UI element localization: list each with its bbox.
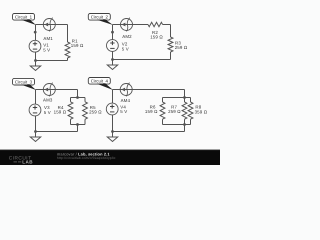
label R8 value 359 Ω	[195, 109, 208, 114]
ammeter AM1	[43, 18, 55, 32]
resistor R3	[168, 37, 173, 52]
wire left vertical upper segment (circuit 4)	[112, 90, 114, 104]
wire R7 top lead	[184, 98, 186, 103]
junction dot bottom-left (circuit 2)	[111, 58, 114, 61]
resistor R2	[148, 22, 163, 26]
svg-text:5 V: 5 V	[43, 48, 50, 53]
flag Circuit_3	[13, 78, 37, 90]
voltage source V4	[106, 103, 118, 115]
label R2	[152, 30, 158, 35]
wire ammeter AM1 to top-right corner (circuit 1)	[55, 24, 67, 26]
label V4 value 5 V	[120, 109, 127, 114]
wire bottom (circuit 3)	[36, 131, 78, 133]
svg-text:AM1: AM1	[43, 36, 53, 41]
svg-text:Circuit_3: Circuit_3	[15, 80, 33, 85]
ammeter AM2	[121, 18, 133, 32]
wire right vertical lower lead (circuit 1)	[67, 58, 69, 61]
svg-text:159 Ω: 159 Ω	[71, 43, 84, 48]
wire R6 top lead	[162, 98, 164, 103]
wire bottom (circuit 2)	[113, 59, 171, 61]
svg-text:AM4: AM4	[121, 98, 131, 103]
label R6	[150, 105, 156, 110]
junction dot bottom rail (circuit 3)	[76, 123, 79, 126]
label R6 value 159 Ω	[145, 109, 158, 114]
wire left vertical lower segment (circuit 4)	[112, 115, 114, 132]
junction dot bottom rail (circuit 4)	[183, 123, 186, 126]
wire feed from bottom rail down (circuit 3)	[77, 125, 79, 132]
svg-text:AM3: AM3	[43, 97, 53, 102]
label AM1	[43, 36, 53, 41]
wire feed down to parallel top rail (circuit 3)	[77, 90, 79, 98]
junction dot top rail (circuit 3)	[76, 96, 79, 99]
junction dot top rail (circuit 4)	[183, 96, 186, 99]
wire left vertical lower segment (circuit 2)	[112, 51, 114, 59]
wire feed down to parallel top rail (circuit 4)	[184, 90, 186, 98]
resistor R7	[182, 102, 187, 119]
wire ammeter AM2 to resistor R2 (circuit 2)	[133, 24, 149, 26]
label V3	[44, 105, 50, 110]
wire R5 bottom lead	[84, 119, 86, 124]
wire top-left corner to ammeter AM1 (circuit 1)	[36, 24, 44, 26]
label AM4	[121, 98, 131, 103]
resistor R6	[160, 102, 165, 119]
svg-text:V2: V2	[122, 41, 128, 46]
label R5	[90, 105, 96, 110]
wire left vertical upper segment (circuit 3)	[35, 90, 37, 105]
label R4	[58, 105, 64, 110]
label V2	[122, 41, 128, 46]
ammeter AM4	[120, 83, 132, 97]
wire top rail (circuit 3)	[71, 97, 86, 99]
label R7 value 259 Ω	[168, 109, 181, 114]
label V4	[120, 105, 126, 110]
svg-text:http://circuitlab.com/c/59aqw6: http://circuitlab.com/c/59aqw6t3yp8c	[57, 156, 116, 160]
wire R4 top lead	[70, 98, 72, 102]
label R1	[72, 38, 78, 43]
wire left vertical upper segment (circuit 1)	[35, 25, 37, 41]
label R5 value 259 Ω	[89, 110, 102, 115]
voltage source V2	[107, 40, 119, 52]
node dot on left wire (circuit 1)	[34, 31, 37, 34]
label R1 value 159 Ω	[71, 43, 84, 48]
svg-text:259 Ω: 259 Ω	[175, 45, 188, 50]
svg-text:AM2: AM2	[122, 34, 132, 39]
wire R4 bottom lead	[70, 119, 72, 124]
svg-text:Circuit_4: Circuit_4	[91, 79, 109, 84]
label AM2	[122, 34, 132, 39]
svg-text:259 Ω: 259 Ω	[89, 110, 102, 115]
resistor R1	[65, 42, 70, 58]
wire feed from bottom rail down (circuit 4)	[184, 125, 186, 132]
wire bottom (circuit 4)	[113, 131, 185, 133]
resistor R8	[188, 102, 193, 119]
wire left vertical lower segment (circuit 1)	[35, 52, 37, 60]
wire top-left corner to ammeter AM3 (circuit 3)	[36, 89, 44, 91]
ground (circuit 2)	[107, 60, 117, 70]
label R7	[171, 105, 177, 110]
voltage source V1	[29, 40, 41, 52]
wire bottom (circuit 1)	[36, 60, 68, 62]
label AM3	[43, 97, 53, 102]
svg-text:159 Ω: 159 Ω	[54, 110, 67, 115]
wire bottom rail (circuit 4)	[163, 124, 191, 126]
svg-text:Circuit_1: Circuit_1	[15, 15, 33, 20]
CircuitLab logo	[9, 155, 34, 164]
svg-text:Circuit_2: Circuit_2	[91, 15, 109, 20]
wire R8 bottom lead	[190, 119, 192, 124]
ground (circuit 4)	[107, 132, 117, 142]
wire R8 top lead	[190, 98, 192, 103]
wire left vertical upper segment (circuit 2)	[112, 25, 114, 40]
svg-text:5 V: 5 V	[122, 47, 129, 52]
wire top-left corner to ammeter AM2 (circuit 2)	[113, 24, 121, 26]
label R3	[175, 40, 181, 45]
svg-text:159 Ω: 159 Ω	[150, 35, 163, 40]
wire top-left corner to ammeter AM4 (circuit 4)	[113, 89, 121, 91]
label V2 value 5 V	[122, 47, 129, 52]
flag Circuit_4	[88, 78, 113, 91]
wire resistor R2 to top-right corner (circuit 2)	[163, 24, 171, 26]
flag Circuit_1	[13, 14, 37, 26]
junction dot bottom-left (circuit 4)	[111, 130, 114, 133]
resistor R5	[83, 102, 88, 120]
label V3 value 5 V	[44, 110, 51, 115]
label R3 value 259 Ω	[175, 45, 188, 50]
wire right vertical upper lead (circuit 1)	[67, 25, 69, 43]
label V1 value 5 V	[43, 48, 50, 53]
voltage source V3	[29, 104, 41, 116]
label R8	[195, 105, 201, 110]
label R2 value 159 Ω	[150, 35, 163, 40]
svg-text:5 V: 5 V	[120, 109, 127, 114]
svg-text:159 Ω: 159 Ω	[145, 109, 158, 114]
label R4 value 159 Ω	[54, 110, 67, 115]
node dot on left wire (circuit 2)	[111, 31, 114, 34]
wire right vertical upper lead (circuit 2)	[170, 25, 172, 38]
wire ammeter AM3 to feed corner (circuit 3)	[55, 89, 77, 91]
svg-text:359 Ω: 359 Ω	[195, 109, 208, 114]
svg-text:259 Ω: 259 Ω	[168, 109, 181, 114]
ground (circuit 1)	[30, 61, 40, 71]
svg-text:LAB: LAB	[22, 160, 33, 165]
footer info text	[57, 151, 116, 160]
wire top rail (circuit 4)	[163, 97, 191, 99]
ammeter AM3	[43, 83, 55, 97]
resistor R4	[68, 102, 73, 120]
wire ammeter AM4 to feed corner (circuit 4)	[132, 89, 184, 91]
flag Circuit_2	[88, 14, 113, 26]
wire R6 bottom lead	[162, 119, 164, 124]
junction dot bottom-left (circuit 1)	[34, 59, 37, 62]
label V1	[43, 43, 49, 48]
footer bar	[0, 150, 220, 165]
wire right vertical lower lead (circuit 2)	[170, 52, 172, 60]
wire R5 top lead	[84, 98, 86, 102]
ground (circuit 3)	[30, 132, 40, 142]
wire left vertical lower segment (circuit 3)	[35, 116, 37, 132]
svg-text:5 V: 5 V	[44, 110, 51, 115]
junction dot bottom-left (circuit 3)	[34, 130, 37, 133]
wire R7 bottom lead	[184, 119, 186, 124]
wire bottom rail (circuit 3)	[71, 124, 86, 126]
